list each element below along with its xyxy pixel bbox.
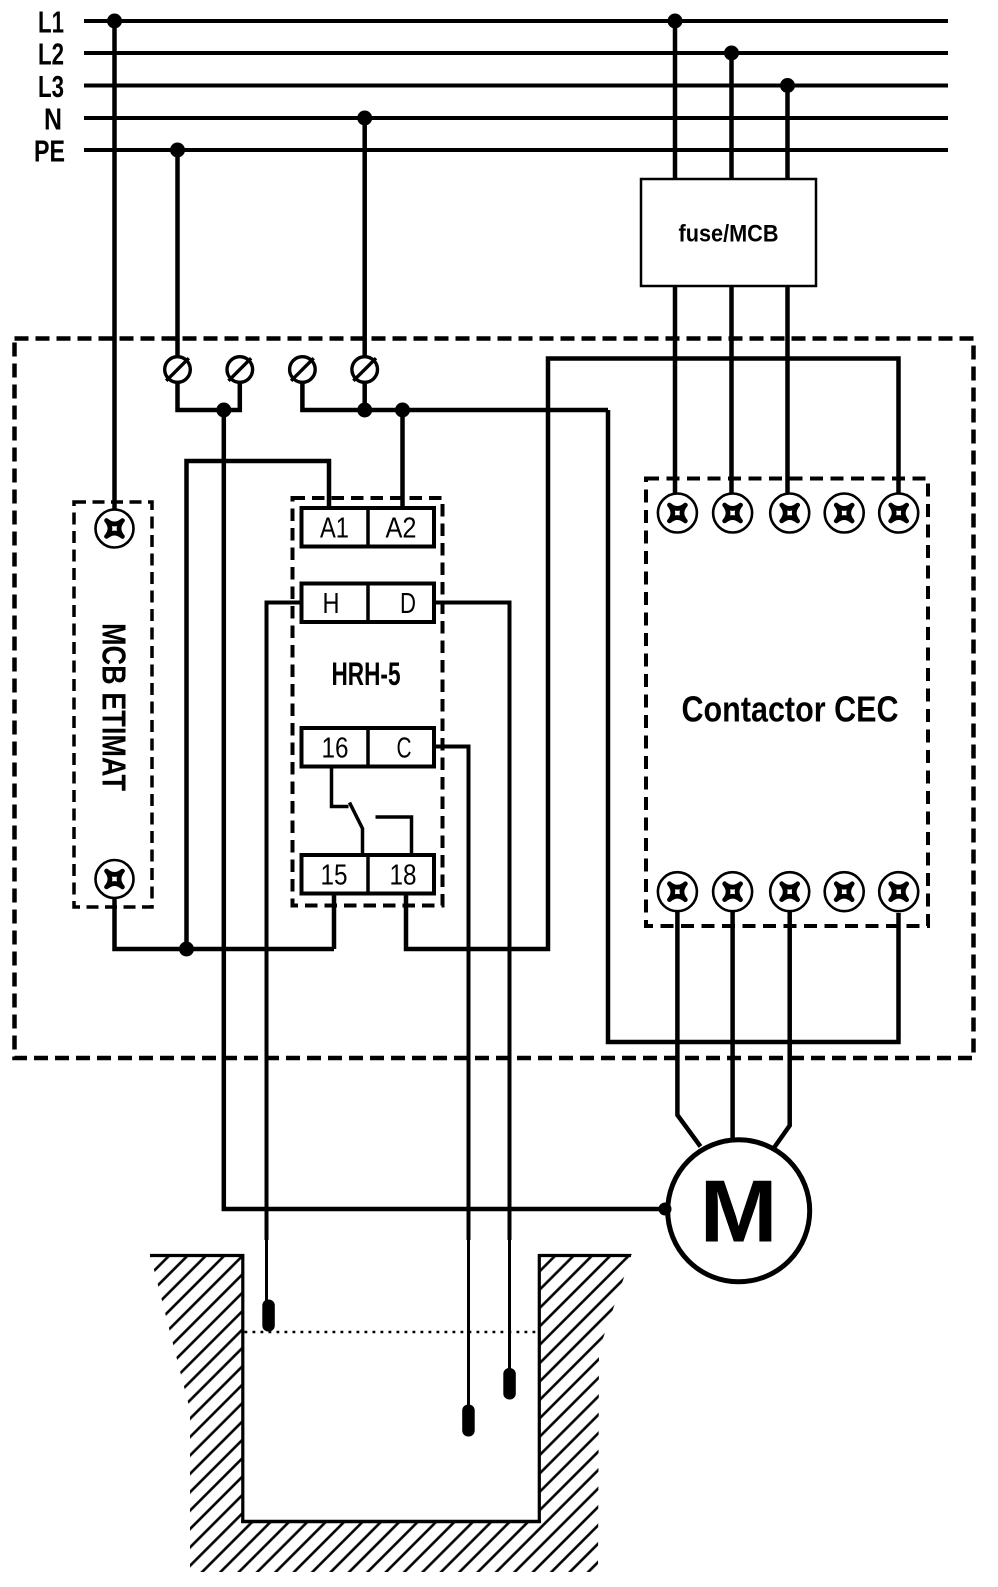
probe P1 (H) xyxy=(262,1300,275,1332)
svg-text:PE: PE xyxy=(34,134,65,169)
contactor screw 3 bottom xyxy=(770,872,809,911)
wire H to probe P1 xyxy=(267,603,302,1303)
wire PE bus T1-T2 xyxy=(178,383,240,410)
wire PE bus to motor frame xyxy=(224,410,665,1209)
svg-text:18: 18 xyxy=(390,860,417,892)
svg-text:D: D xyxy=(400,588,416,620)
junction PE xyxy=(170,143,185,158)
junction L2/fuse xyxy=(724,46,739,61)
MCB ETIMAT Q1 (dashed) xyxy=(74,502,152,907)
contactor CEC KM1 (dashed) xyxy=(646,479,928,927)
wire L2 to fuse/MCB xyxy=(729,53,734,180)
wire N bus to contactor coil screw (bottom right) xyxy=(608,410,899,1042)
wire N bus T3-T4 xyxy=(302,383,608,410)
MCB screw terminal bottom xyxy=(96,860,134,898)
feed-through terminal T2 xyxy=(227,357,253,383)
relay contact 18 lead xyxy=(376,817,412,855)
junction PE bus xyxy=(216,403,231,418)
wire 18 to contactor coil screw (top right) xyxy=(406,359,899,950)
wire C to probe P2 xyxy=(434,747,469,1408)
wire 15 to node J1 xyxy=(332,894,337,950)
contactor screw 5 bottom (coil) xyxy=(879,872,918,911)
motor M1 xyxy=(668,1140,810,1282)
contactor screw 4 bottom xyxy=(825,872,864,911)
junction L3/fuse xyxy=(780,78,795,93)
wire T4 stub xyxy=(362,383,367,410)
terminal strip 16/C xyxy=(302,728,435,767)
svg-text:Contactor CEC: Contactor CEC xyxy=(682,689,899,730)
contactor screw 1 bottom xyxy=(658,872,697,911)
svg-text:L3: L3 xyxy=(38,69,64,104)
wire contactor out 2 to motor xyxy=(730,911,735,1141)
bus N xyxy=(44,102,948,137)
contactor screw 2 top xyxy=(713,494,752,533)
wire fuse output 2 to contactor xyxy=(729,286,734,494)
svg-text:fuse/MCB: fuse/MCB xyxy=(679,221,779,248)
well inner wall right xyxy=(538,1254,541,1523)
svg-text:C: C xyxy=(397,733,412,765)
feed-through terminal T3 xyxy=(290,357,316,383)
control panel enclosure (dashed) xyxy=(15,339,974,1059)
contactor screw 1 top xyxy=(658,494,697,533)
junction N bus A2 xyxy=(395,403,410,418)
svg-text:16: 16 xyxy=(322,733,349,765)
level relay HRH-5 K1 (dashed) xyxy=(293,498,443,906)
bus L2 xyxy=(38,37,948,72)
wire N bus to A2 xyxy=(400,410,405,509)
terminal strip A1/A2 xyxy=(302,508,435,547)
svg-text:L2: L2 xyxy=(38,37,64,72)
well ground ledge right xyxy=(539,1254,631,1257)
svg-text:N: N xyxy=(44,102,62,137)
svg-text:A1: A1 xyxy=(320,513,349,545)
wire PE to terminal T1 xyxy=(175,150,180,357)
svg-text:A2: A2 xyxy=(386,513,417,545)
svg-text:L1: L1 xyxy=(38,5,64,40)
feed-through terminal T4 xyxy=(352,357,378,383)
svg-text:MCB ETIMAT: MCB ETIMAT xyxy=(96,623,133,791)
junction N bus T4 xyxy=(357,403,372,418)
junction L1/MCB xyxy=(107,14,122,29)
water level (dotted) xyxy=(245,1331,540,1334)
junction J1 xyxy=(179,942,194,957)
relay contact 16 fixed lead xyxy=(332,767,349,807)
contactor screw 5 top (coil) xyxy=(879,494,918,533)
wire L1 to fuse/MCB xyxy=(673,21,678,180)
wire L1 to MCB ETIMAT xyxy=(112,21,117,510)
well ground ledge left xyxy=(150,1254,244,1257)
bus L3 xyxy=(38,69,948,104)
junction N xyxy=(357,111,372,126)
junction motor PE xyxy=(659,1203,672,1216)
wire D to probe P3 xyxy=(434,603,510,1371)
wire contactor out 1 to motor xyxy=(677,911,700,1147)
well wall hatching xyxy=(150,1254,632,1572)
wire fuse output 1 to contactor xyxy=(673,286,678,494)
wire A1 to junction J1 xyxy=(187,461,330,949)
feed-through terminal T1 xyxy=(165,357,191,383)
wire MCB bottom to node J1 xyxy=(115,898,335,949)
probe P2 (C) xyxy=(462,1405,475,1437)
wire contactor out 3 to motor xyxy=(774,911,790,1149)
bus L1 xyxy=(38,5,948,40)
contactor screw 4 top xyxy=(825,494,864,533)
relay contact blade 15 xyxy=(350,803,363,856)
probe P3 (D) xyxy=(503,1368,516,1400)
svg-text:H: H xyxy=(323,588,340,620)
contactor screw 3 top xyxy=(770,494,809,533)
fuse/MCB F1 xyxy=(641,179,816,286)
junction L1/fuse xyxy=(668,14,683,29)
wire N to terminal T4 xyxy=(362,118,367,357)
MCB screw terminal top xyxy=(96,510,134,548)
svg-text:HRH-5: HRH-5 xyxy=(332,656,401,692)
wire L3 to fuse/MCB xyxy=(785,86,790,181)
bus PE xyxy=(34,134,948,169)
contactor screw 2 bottom xyxy=(713,872,752,911)
well inner bottom xyxy=(241,1520,541,1524)
well inner wall left xyxy=(241,1254,244,1523)
terminal strip 15/18 xyxy=(302,855,435,894)
svg-text:15: 15 xyxy=(321,860,348,892)
svg-text:M: M xyxy=(700,1162,778,1261)
terminal strip H/D xyxy=(302,584,435,623)
wire fuse output 3 to contactor xyxy=(785,286,790,494)
